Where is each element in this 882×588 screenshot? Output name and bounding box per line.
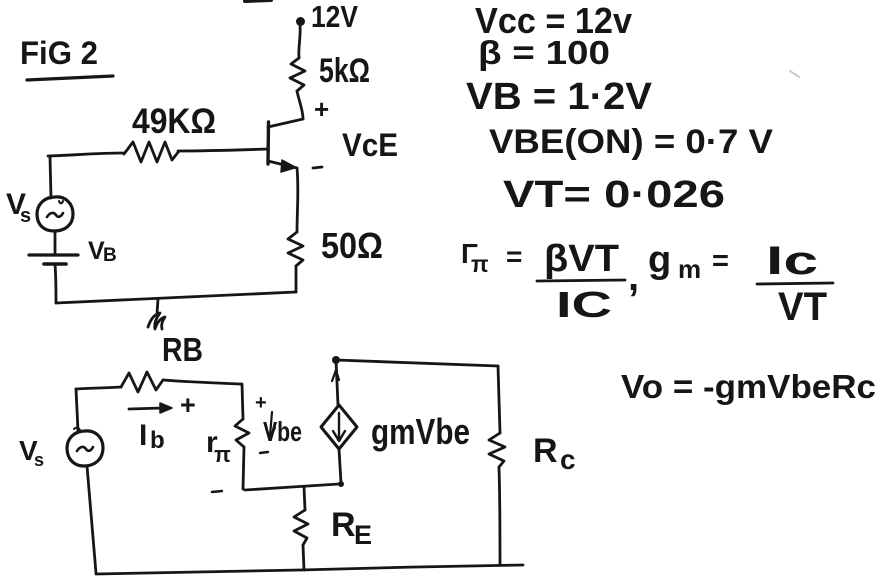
- svg-text:E: E: [354, 520, 372, 550]
- svg-text:=: =: [712, 245, 729, 277]
- svg-text:s: s: [20, 205, 31, 227]
- svg-text:Ic: Ic: [766, 239, 818, 283]
- svg-text:=: =: [506, 241, 522, 272]
- svg-text:s: s: [34, 450, 44, 470]
- svg-text:5kΩ: 5kΩ: [319, 52, 370, 90]
- svg-text:B: B: [103, 245, 117, 266]
- svg-text:VBE(ON) = 0·7 V: VBE(ON) = 0·7 V: [489, 123, 773, 161]
- svg-text:50Ω: 50Ω: [321, 225, 383, 266]
- svg-text:R: R: [533, 432, 558, 470]
- svg-text:VB = 1·2V: VB = 1·2V: [466, 76, 653, 118]
- svg-text:R: R: [331, 506, 356, 544]
- svg-text:VT: VT: [778, 285, 827, 329]
- svg-text:gmVbe: gmVbe: [371, 411, 470, 452]
- svg-text:c: c: [560, 444, 576, 475]
- svg-text:VcE: VcE: [342, 127, 398, 163]
- svg-text:12V: 12V: [311, 0, 358, 34]
- svg-text:π: π: [471, 251, 489, 277]
- svg-text:VT= 0·026: VT= 0·026: [503, 174, 725, 216]
- svg-text:m: m: [678, 254, 701, 284]
- svg-text:+: +: [180, 390, 196, 420]
- svg-text:IC: IC: [556, 284, 612, 325]
- svg-text:RB: RB: [162, 331, 203, 368]
- svg-text:+: +: [314, 94, 329, 124]
- svg-text:,: ,: [628, 255, 639, 299]
- svg-text:g: g: [648, 239, 671, 281]
- svg-text:π: π: [214, 442, 231, 467]
- svg-text:Vbe: Vbe: [263, 416, 302, 447]
- svg-text:FiG 2: FiG 2: [20, 35, 98, 71]
- svg-text:βVT: βVT: [544, 238, 619, 280]
- svg-text:49KΩ: 49KΩ: [132, 102, 216, 141]
- svg-text:+: +: [255, 392, 267, 414]
- svg-text:β = 100: β = 100: [478, 34, 610, 71]
- svg-text:I: I: [139, 419, 147, 452]
- svg-text:Vo = -gmVbeRc: Vo = -gmVbeRc: [621, 368, 876, 405]
- svg-text:b: b: [150, 427, 165, 454]
